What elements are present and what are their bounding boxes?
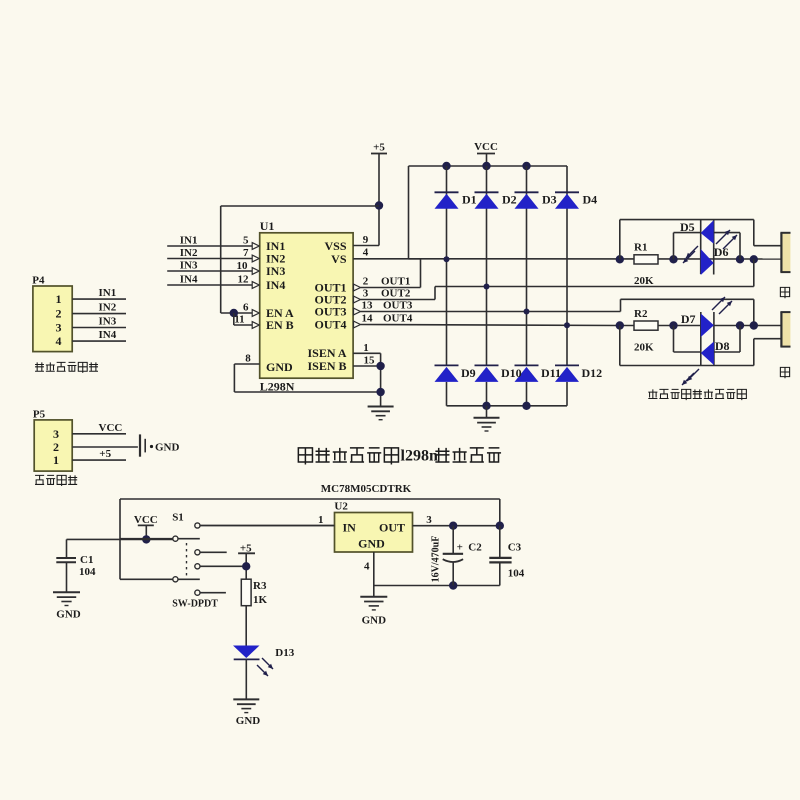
svg-text:D11: D11 [541,366,561,380]
svg-text:IN2: IN2 [180,247,198,259]
svg-text:D8: D8 [715,339,730,353]
svg-text:3: 3 [363,288,369,300]
svg-text:R1: R1 [634,242,647,254]
svg-text:OUT3: OUT3 [314,305,346,319]
svg-text:IN4: IN4 [266,278,285,292]
svg-text:12: 12 [238,274,250,286]
svg-text:GND: GND [155,442,180,454]
svg-text:ISEN A: ISEN A [307,346,346,360]
svg-text:S1: S1 [172,512,184,524]
svg-text:3: 3 [56,321,62,335]
svg-text:D2: D2 [502,193,517,207]
svg-text:4: 4 [364,561,370,573]
svg-text:2: 2 [363,276,369,288]
svg-text:1: 1 [56,292,62,306]
svg-text:OUT: OUT [379,521,405,535]
svg-text:GND: GND [362,615,387,627]
svg-text:R2: R2 [634,308,648,320]
svg-text:VCC: VCC [134,514,158,526]
svg-text:IN2: IN2 [99,302,117,314]
svg-text:IN3: IN3 [266,264,285,278]
svg-text:VS: VS [331,252,347,266]
svg-text:20K: 20K [634,342,654,354]
svg-text:6: 6 [243,302,249,314]
svg-text:1K: 1K [253,594,268,606]
svg-text:104: 104 [508,567,525,579]
svg-text:D9: D9 [461,366,476,380]
svg-text:IN1: IN1 [99,287,117,299]
svg-text:D1: D1 [462,193,477,207]
svg-text:OUT1: OUT1 [381,276,410,288]
svg-text:VCC: VCC [474,141,498,153]
svg-text:2: 2 [56,307,62,321]
svg-text:R3: R3 [253,580,267,592]
svg-text:+5: +5 [99,448,111,460]
svg-text:D3: D3 [542,193,557,207]
svg-text:OUT2: OUT2 [381,288,411,300]
svg-text:l298n: l298n [401,448,438,465]
svg-text:ISEN B: ISEN B [307,359,346,373]
svg-text:IN3: IN3 [180,260,198,272]
svg-text:7: 7 [243,247,249,259]
svg-text:+: + [457,542,463,554]
svg-text:10: 10 [237,260,249,272]
svg-text:IN: IN [343,521,357,535]
svg-text:VCC: VCC [99,422,123,434]
svg-text:SW-DPDT: SW-DPDT [172,599,218,610]
svg-text:D12: D12 [582,366,603,380]
svg-text:D5: D5 [680,220,695,234]
svg-text:OUT4: OUT4 [314,318,346,332]
svg-text:20K: 20K [634,275,654,287]
svg-text:MC78M05CDTRK: MC78M05CDTRK [321,483,412,495]
svg-text:11: 11 [234,314,244,326]
svg-text:U1: U1 [260,219,275,233]
svg-text:+5: +5 [373,142,385,154]
svg-text:4: 4 [363,247,369,259]
svg-text:D7: D7 [681,312,696,326]
svg-text:D10: D10 [501,366,522,380]
svg-text:GND: GND [236,715,260,727]
svg-text:D6: D6 [714,245,729,259]
svg-text:GND: GND [266,360,293,374]
svg-text:OUT3: OUT3 [383,300,413,312]
svg-text:GND: GND [358,537,385,551]
svg-text:IN1: IN1 [180,235,198,247]
svg-text:P4: P4 [32,275,45,287]
svg-text:C1: C1 [80,554,93,566]
svg-text:2: 2 [53,440,59,454]
svg-text:9: 9 [363,234,369,246]
svg-text:D13: D13 [275,647,294,659]
svg-text:IN3: IN3 [99,316,117,328]
svg-text:15: 15 [364,355,376,367]
svg-text:P5: P5 [33,408,46,420]
svg-text:1: 1 [363,342,369,354]
svg-text:13: 13 [362,300,374,312]
svg-text:5: 5 [243,235,249,247]
svg-text:C3: C3 [508,542,522,554]
svg-text:D4: D4 [583,193,598,207]
svg-text:3: 3 [53,427,59,441]
svg-text:VSS: VSS [324,239,346,253]
svg-text:IN4: IN4 [99,329,117,341]
svg-text:IN4: IN4 [180,274,198,286]
svg-text:104: 104 [79,566,96,578]
svg-text:1: 1 [53,453,59,467]
svg-text:8: 8 [245,353,251,365]
svg-text:C2: C2 [468,542,482,554]
svg-text:1: 1 [318,514,324,526]
svg-text:GND: GND [56,609,81,621]
svg-text:14: 14 [362,313,374,325]
svg-text:4: 4 [56,334,62,348]
svg-text:3: 3 [426,514,432,526]
svg-text:16V/470uF: 16V/470uF [431,536,442,583]
svg-text:OUT4: OUT4 [383,313,413,325]
svg-text:U2: U2 [334,501,348,513]
svg-text:EN B: EN B [266,318,294,332]
